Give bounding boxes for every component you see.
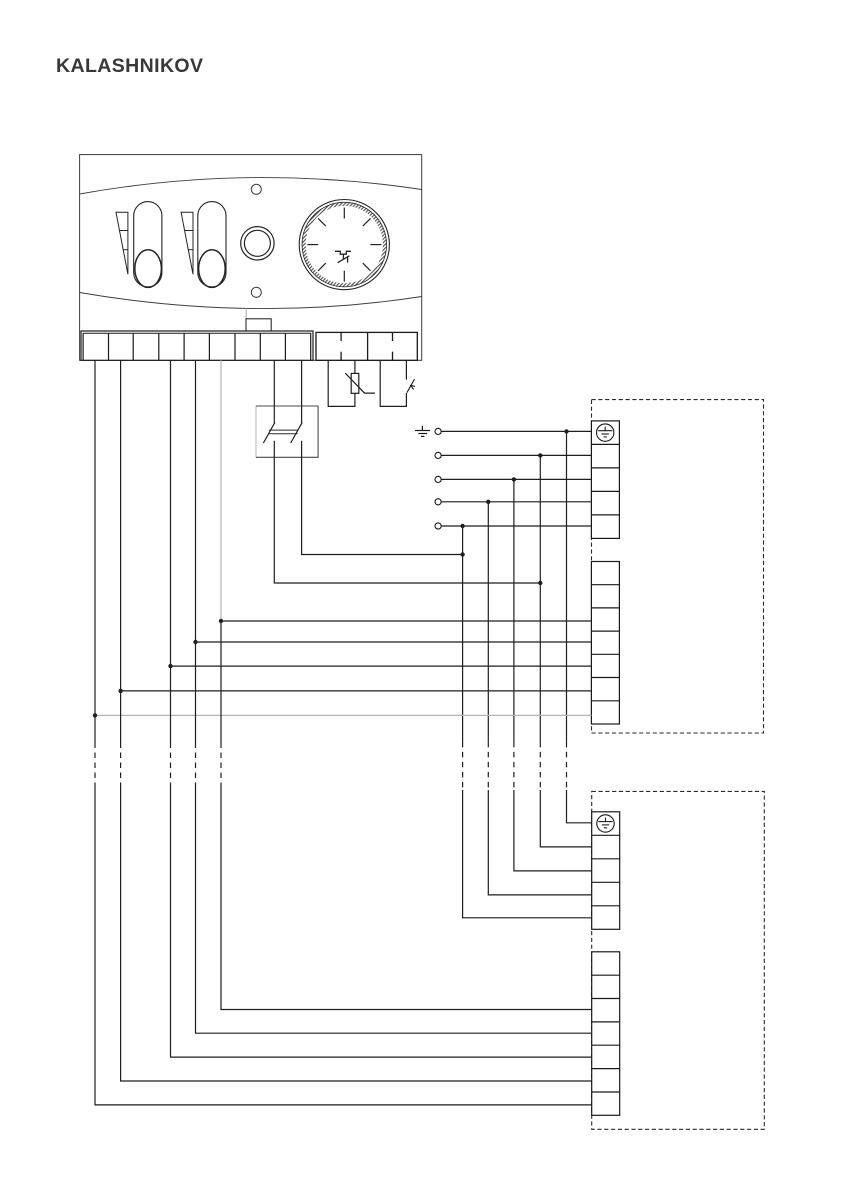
wire W6 (board cell 6) dashed crossing [220, 743, 222, 785]
thermal limiter switch ST1 [407, 379, 415, 393]
relay K1 contact 2 [291, 360, 303, 443]
sensor terminal block X2 (2 cells) [316, 332, 417, 360]
bus wire V1 upper segment [566, 431, 568, 742]
wire pin 5 to strip XT1 [441, 525, 591, 527]
heater 1 terminal strip XT1 (5 cells) [591, 421, 619, 539]
wire W4 (board cell 4) dashed crossing [170, 743, 172, 785]
node relay wire on V2 [538, 581, 542, 585]
thermostat dial outer ring [299, 200, 389, 290]
bus wire V2 dashed crossing [539, 742, 541, 790]
wire pin 2 to strip XT1 [441, 454, 591, 456]
wire W2 (board cell 2) vertical [120, 360, 122, 742]
bus wire V2 upper segment [539, 455, 541, 742]
bus wire V3 lower segment to XT3 [514, 790, 592, 871]
wire W1 (board cell 1) branch to XT2 [95, 714, 591, 716]
connector pin 4 [435, 499, 441, 505]
control panel outer frame [80, 155, 422, 361]
connector pin 5 [435, 523, 441, 529]
heating unit 1 dashed enclosure [592, 400, 764, 733]
slider 2 track [198, 202, 226, 287]
wire W6 (board cell 6) junction [219, 619, 223, 623]
panel mounting tab [246, 319, 271, 332]
KALASHNIKOV logo [56, 55, 203, 78]
wire W2 (board cell 2) lower segment to XT4 [121, 785, 592, 1082]
node pin 5 branch [460, 524, 464, 528]
wire pin 1 to strip XT1 [441, 430, 591, 432]
heater 2 terminal strip XT3 (5 cells) [592, 812, 620, 930]
wire W2 (board cell 2) junction [118, 689, 122, 693]
bus wire V5 lower segment to XT3 [463, 790, 592, 918]
thermostat dial inner ring [302, 202, 386, 286]
wire W2 (board cell 2) dashed crossing [120, 743, 122, 785]
wire W5 (board cell 5) dashed crossing [195, 743, 197, 785]
thermostat dial center symbol [335, 251, 351, 262]
node pin 1 branch [564, 429, 568, 433]
wire W5 (board cell 5) branch to XT2 [196, 641, 592, 643]
slider 1 knob [135, 250, 162, 288]
panel face bottom curve [80, 293, 422, 309]
NTC sensor loop wire [328, 360, 355, 406]
connector pin 2 [435, 452, 441, 458]
connector pin 3 [435, 476, 441, 482]
bus wire V5 upper segment [462, 526, 464, 742]
heating unit 2 dashed enclosure [592, 791, 765, 1129]
wire W5 (board cell 5) vertical [195, 360, 197, 742]
connector pin 1 [435, 428, 441, 434]
slider 1 scale wedge [116, 212, 128, 274]
wire relay contact 1 to bus V2 [274, 441, 540, 583]
wire pin 3 to strip XT1 [441, 478, 591, 480]
thermal limiter loop wire [380, 360, 406, 406]
wire W1 (board cell 1) dashed crossing [94, 743, 96, 785]
bus wire V5 dashed crossing [462, 742, 464, 790]
thermostat dial tick marks [307, 208, 381, 282]
heater 1 terminal strip XT2 (7 cells) [591, 562, 619, 725]
bus wire V1 dashed crossing [566, 742, 568, 790]
slider 2 scale wedge [181, 212, 193, 274]
heater 1 PE terminal symbol [597, 424, 614, 441]
slider 2 knob [199, 250, 226, 288]
wire W1 (board cell 1) lower segment to XT4 [95, 785, 592, 1105]
wire W4 (board cell 4) branch to XT2 [171, 665, 592, 667]
node relay wire on V5 [460, 552, 464, 556]
chassis ground symbol [415, 426, 430, 437]
wire W4 (board cell 4) junction [168, 664, 172, 668]
wire W2 (board cell 2) branch to XT2 [121, 690, 592, 692]
wire W6 (board cell 6) vertical [220, 621, 222, 743]
screw bottom [251, 287, 261, 297]
bus wire V2 lower segment to XT3 [540, 790, 591, 847]
round button outer [241, 227, 274, 260]
bus wire V4 upper segment [487, 502, 489, 742]
wire W5 (board cell 5) junction [193, 640, 197, 644]
node pin 4 branch [486, 500, 490, 504]
thermostat dial knurled band [304, 204, 385, 285]
bus wire V4 dashed crossing [487, 742, 489, 790]
wire W5 (board cell 5) lower segment to XT4 [196, 785, 592, 1034]
wire W6 (board cell 6) upper gray segment [220, 360, 222, 621]
bus wire V3 dashed crossing [513, 742, 515, 790]
wire W6 (board cell 6) lower segment to XT4 [221, 785, 592, 1010]
screw top [251, 184, 261, 194]
wire W4 (board cell 4) vertical [170, 360, 172, 742]
wire W1 (board cell 1) junction [93, 713, 97, 717]
control board terminal block X1 (9 cells) [81, 331, 313, 360]
wire W6 (board cell 6) branch to XT2 [221, 620, 591, 622]
node pin 2 branch [538, 453, 542, 457]
round button inner [244, 230, 270, 256]
wire W1 (board cell 1) vertical [94, 360, 96, 742]
relay K1 coupling bars [269, 430, 298, 434]
relay K1 box [256, 406, 318, 457]
slider 1 track [134, 202, 162, 287]
bus wire V4 lower segment to XT3 [488, 790, 591, 895]
wire relay contact 2 to bus V5 [302, 441, 463, 555]
node pin 3 branch [512, 477, 516, 481]
thermistor RT1 [345, 373, 375, 393]
heater 2 PE terminal symbol [597, 815, 614, 832]
bus wire V3 upper segment [513, 479, 515, 742]
relay K1 contact 1 [263, 360, 275, 443]
panel face top curve [80, 178, 422, 194]
bus wire V1 lower segment to XT3 [567, 790, 592, 823]
wire pin 4 to strip XT1 [441, 501, 591, 503]
heater 2 terminal strip XT4 (7 cells) [592, 952, 620, 1116]
panel mounting tab stub [245, 309, 247, 320]
wire W4 (board cell 4) lower segment to XT4 [171, 785, 592, 1058]
